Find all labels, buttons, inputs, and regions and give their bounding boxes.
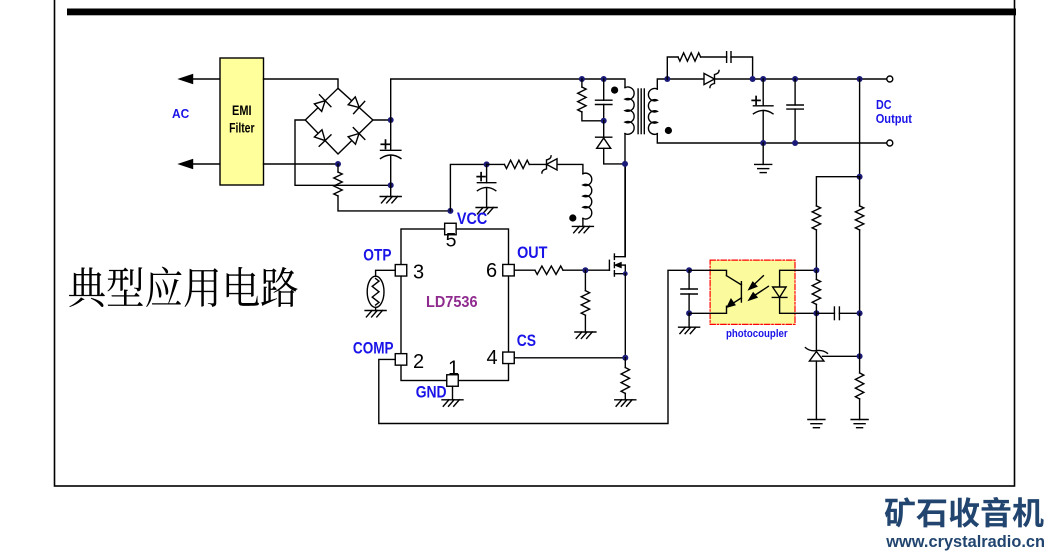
- node VCC: [447, 208, 453, 214]
- gate pulldown resistor R4: [584, 270, 586, 290]
- secondary phase dot: [665, 127, 672, 134]
- svg-text:AC: AC: [172, 106, 190, 121]
- node snubber C top: [601, 76, 607, 82]
- wire secondary bottom: [657, 134, 886, 143]
- svg-text:OUT: OUT: [517, 243, 548, 262]
- rectifier diode D6: [704, 73, 715, 84]
- wire VCC riser: [450, 164, 486, 211]
- node drain: [622, 161, 628, 167]
- thermistor RT1: [367, 276, 384, 307]
- lower divider resistor R11: [855, 373, 863, 399]
- ground lower divider: [851, 419, 868, 421]
- ground opto emitter: [688, 313, 690, 327]
- DC output terminal plus: [887, 76, 893, 82]
- svg-text:photocoupler: photocoupler: [726, 328, 788, 340]
- svg-text:LD7536: LD7536: [426, 294, 478, 311]
- transformer core: [637, 89, 639, 134]
- ground gate resistor: [575, 331, 596, 333]
- svg-text:Output: Output: [876, 112, 913, 126]
- AC bottom arrow: [191, 163, 220, 165]
- photocoupler U2 box: [710, 260, 795, 324]
- svg-text:VCC: VCC: [457, 209, 487, 228]
- pin 2 square: [395, 354, 407, 366]
- output capacitor C5: [762, 79, 764, 106]
- svg-text:GND: GND: [416, 382, 447, 401]
- svg-text:DC: DC: [876, 98, 892, 112]
- wire bridge left to DC minus: [295, 120, 391, 185]
- divider resistor R9: [859, 177, 861, 206]
- opto light arrow 1: [752, 276, 763, 287]
- svg-text:3: 3: [413, 262, 424, 284]
- wire secondary top: [657, 79, 886, 89]
- node out cap1 bottom: [760, 140, 766, 146]
- bulk capacitor C1: [390, 120, 392, 150]
- opto LED: [780, 270, 817, 287]
- ground output: [762, 143, 764, 164]
- svg-text:COMP: COMP: [353, 338, 394, 357]
- AC top arrow: [191, 78, 220, 80]
- startup resistor R1: [337, 164, 339, 172]
- primary phase dot: [611, 87, 618, 94]
- node out cap2 top: [792, 76, 798, 82]
- node VCC cap: [484, 161, 490, 167]
- node bulk cap bottom: [388, 182, 394, 188]
- EMI filter block: [220, 58, 264, 185]
- ground thermistor: [375, 307, 377, 310]
- VCC charge resistor R2: [487, 163, 505, 165]
- bridge diode D3 (L to B): [314, 130, 325, 141]
- bridge diamond wires: [305, 88, 373, 154]
- watermark logo 矿石收音机: [885, 497, 1044, 528]
- feedback capacitor C8: [816, 312, 834, 314]
- node divider mid: [857, 174, 863, 180]
- svg-text:OTP: OTP: [363, 245, 391, 264]
- sec snubber capacitor C4: [726, 52, 728, 63]
- svg-text:6: 6: [486, 260, 497, 282]
- ground GND pin: [452, 386, 454, 400]
- node ref: [857, 353, 863, 359]
- node bridge bottom: [335, 161, 341, 167]
- pin 1 square: [447, 375, 459, 387]
- node sec snubber left: [664, 76, 670, 82]
- bridge diode D4 (B to R): [348, 134, 359, 145]
- page frame: [55, 0, 1015, 486]
- node LED cathode: [813, 310, 819, 316]
- pin 3 square: [395, 265, 407, 277]
- transformer T1 primary winding: [625, 87, 634, 134]
- transistor Q1 MOSFET: [608, 260, 610, 270]
- svg-text:1: 1: [448, 358, 459, 380]
- wire right chain: [859, 313, 861, 373]
- pin 4 square: [503, 352, 515, 364]
- wire bridge right to DC plus: [373, 119, 391, 121]
- wire OTP: [376, 270, 396, 276]
- ground bulk cap: [390, 185, 392, 196]
- node out cap2 bottom: [792, 140, 798, 146]
- svg-text:4: 4: [486, 347, 497, 369]
- pin 6 square: [503, 264, 515, 276]
- svg-text:Filter: Filter: [229, 121, 255, 136]
- output capacitor C6: [794, 79, 796, 105]
- aux phase dot: [569, 214, 576, 221]
- LED bias resistor R10: [815, 270, 817, 279]
- VCC capacitor C2: [486, 164, 488, 182]
- node snubber bottom: [601, 118, 607, 124]
- wire EMI bottom to bridge: [264, 163, 339, 165]
- opto light arrow 2: [752, 286, 768, 297]
- VCC diode D5: [547, 159, 558, 170]
- node out cap1 top: [760, 76, 766, 82]
- node LED anode: [813, 267, 819, 273]
- snubber resistor R6: [581, 79, 583, 87]
- node bulk cap top: [388, 117, 394, 123]
- bridge diode D2 (T to R): [348, 97, 359, 108]
- transformer secondary winding: [648, 88, 657, 134]
- sec snubber resistor R7: [667, 57, 678, 79]
- wire zener ref: [823, 355, 860, 357]
- node divider tap top: [857, 76, 863, 82]
- title 典型应用电路: [69, 267, 298, 307]
- header bar: [67, 9, 1016, 16]
- COMP filter capacitor C7: [688, 270, 690, 289]
- svg-text:5: 5: [446, 230, 457, 252]
- node sec snubber right: [750, 76, 756, 82]
- wire EMI top to bridge: [264, 79, 339, 88]
- aux winding: [583, 173, 592, 219]
- wire mains to primary: [391, 79, 625, 120]
- zener diode ZD1: [815, 313, 817, 350]
- node snubber R top: [579, 76, 585, 82]
- svg-text:www.crystalradio.cn: www.crystalradio.cn: [885, 532, 1045, 551]
- wire CS: [514, 357, 625, 359]
- node CS: [622, 355, 628, 361]
- svg-text:2: 2: [413, 351, 424, 373]
- snubber capacitor C3: [603, 79, 605, 100]
- gate resistor R3: [514, 269, 535, 271]
- sense resistor R5: [624, 358, 626, 368]
- DC output terminal minus: [887, 140, 893, 146]
- ground zener: [808, 419, 825, 421]
- wire COMP to photocoupler: [379, 270, 689, 423]
- opto phototransistor: [689, 270, 726, 275]
- node opto collector: [686, 267, 692, 273]
- node gate: [582, 267, 588, 273]
- ground aux winding: [582, 218, 584, 226]
- node cap right: [857, 310, 863, 316]
- divider resistor R8: [812, 206, 820, 230]
- snubber diode D7: [596, 136, 612, 138]
- wire divider left branch: [816, 177, 859, 206]
- svg-text:CS: CS: [517, 331, 536, 350]
- ground sense resistor: [615, 399, 636, 401]
- pin 5 square: [445, 223, 457, 235]
- bridge diode D1 (L to T): [314, 101, 325, 112]
- ground VCC cap: [476, 207, 497, 209]
- svg-text:EMI: EMI: [232, 103, 252, 118]
- wire divider drop: [859, 79, 861, 177]
- node opto emitter: [686, 310, 692, 316]
- op IC U1 LD7536 box: [401, 229, 509, 381]
